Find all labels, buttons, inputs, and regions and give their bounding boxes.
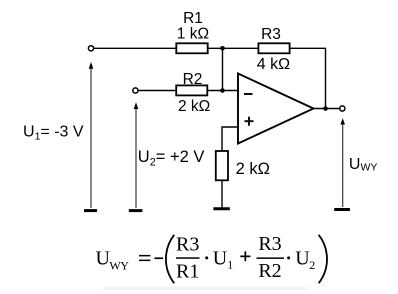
- ground UWY output: [334, 208, 350, 211]
- formula dot U2: [287, 256, 290, 259]
- wire junction down to inverting input: [222, 48, 224, 90]
- svg-text:R3: R3: [258, 233, 281, 255]
- svg-text:4 kΩ: 4 kΩ: [257, 56, 290, 73]
- svg-text:WY: WY: [109, 258, 129, 272]
- svg-text:1: 1: [227, 258, 233, 272]
- svg-text:R3: R3: [176, 234, 199, 256]
- svg-text:R2: R2: [183, 71, 203, 88]
- terminal U2 input: [133, 88, 138, 93]
- arrow U1 source: [90, 68, 92, 208]
- wire R3 to output node: [290, 48, 326, 108]
- wire op-amp output: [314, 108, 340, 110]
- junction node output: [323, 106, 328, 111]
- formula plus: [240, 256, 250, 258]
- formula left parenthesis: [166, 235, 174, 283]
- arrow U2 source: [135, 108, 137, 208]
- wire R1 to R3: [208, 47, 259, 49]
- ground U2 source: [129, 209, 143, 212]
- resistor R1: [176, 43, 207, 53]
- ground U1 source: [84, 209, 97, 212]
- wire U1 terminal to R1: [94, 47, 177, 49]
- ground below resistor 2k: [213, 207, 229, 210]
- svg-text:R1: R1: [176, 261, 199, 283]
- op-amp minus sign: [244, 93, 253, 95]
- faint watermark smudge: [103, 287, 307, 290]
- resistor R2: [176, 85, 207, 95]
- resistor R3: [258, 43, 289, 53]
- terminal U1 input: [88, 46, 93, 51]
- svg-text:U2= +2 V: U2= +2 V: [138, 148, 205, 168]
- junction node at R1/R3: [220, 46, 225, 51]
- svg-text:UWY: UWY: [349, 156, 377, 174]
- resistor 2k (non-inverting input): [216, 151, 228, 180]
- svg-text:2 kΩ: 2 kΩ: [236, 160, 270, 178]
- wire U2 terminal to R2: [138, 90, 176, 92]
- wire R2 to inverting input: [207, 90, 238, 92]
- formula dot U1: [205, 256, 208, 259]
- svg-text:1 kΩ: 1 kΩ: [177, 25, 209, 42]
- svg-text:R2: R2: [258, 260, 281, 282]
- junction node inverting input: [220, 88, 225, 93]
- svg-text:2 kΩ: 2 kΩ: [178, 98, 210, 115]
- arrow UWY output: [342, 124, 344, 208]
- terminal output: [340, 106, 345, 111]
- op-amp: [238, 74, 314, 144]
- svg-text:R3: R3: [261, 26, 281, 43]
- svg-text:U1= -3 V: U1= -3 V: [23, 123, 84, 142]
- wire resistor 2k to ground: [221, 180, 223, 208]
- svg-text:U: U: [213, 248, 228, 270]
- svg-text:U: U: [295, 248, 310, 270]
- svg-text:U: U: [96, 248, 111, 270]
- svg-text:2: 2: [309, 258, 315, 272]
- op-amp plus sign: [245, 120, 254, 122]
- formula right parenthesis: [319, 235, 327, 283]
- wire non-inverting input to grounding resistor: [222, 127, 238, 151]
